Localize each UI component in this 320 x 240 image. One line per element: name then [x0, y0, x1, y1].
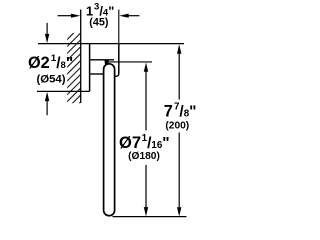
svg-text:(45): (45) [89, 16, 109, 28]
dim 45: left arrow [58, 15, 72, 17]
plate bottom + left extension of 54 dim [37, 90, 90, 92]
dim 180: top extension line [109, 61, 152, 63]
pivot nub on tube top [104, 60, 109, 64]
arm bottom edge [90, 73, 104, 75]
bottom baseline extension [113, 216, 187, 218]
svg-text:77/8": 77/8" [164, 101, 197, 120]
wall hatching [64, 23, 84, 119]
top line: plate top + extension lines for 54 and 200 dims [38, 43, 184, 45]
svg-text:(Ø54): (Ø54) [36, 73, 65, 85]
wall face line (also left extension line of 45 dim) [80, 10, 82, 104]
dim 54: top outside arrow [46, 23, 48, 35]
arm top edge [90, 59, 114, 61]
dim 45: right arrow [129, 15, 140, 17]
dim 180: top arrow [144, 62, 148, 71]
holder bracket right edge (incl. extension line of 45 dim above) [118, 10, 120, 44]
dim 200: top arrow [177, 44, 181, 53]
dim 180: bottom arrow [145, 165, 147, 208]
svg-text:(200): (200) [165, 121, 189, 132]
svg-text:(Ø180): (Ø180) [128, 151, 160, 162]
mounting plate right edge [89, 44, 91, 92]
dim 200: bottom arrow [178, 133, 180, 208]
ring tube (side view capsule) [104, 64, 115, 216]
dim 54: bottom outside arrow [45, 92, 49, 101]
